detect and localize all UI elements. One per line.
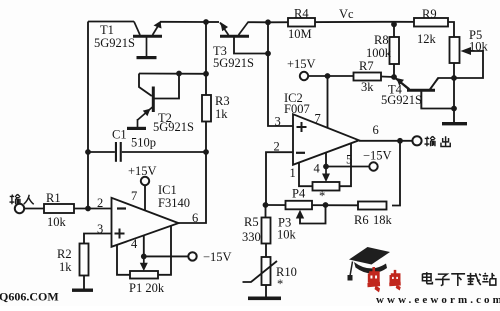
P1 wiper arrow down	[140, 256, 148, 271]
node summing input	[85, 206, 91, 212]
capacitor C1 510p plates	[115, 142, 122, 162]
wire T2 base-collector rail to R3 top	[139, 73, 206, 75]
node output	[397, 138, 403, 144]
watermark graduation cap	[348, 247, 391, 281]
ground for T4 base chain	[442, 122, 467, 125]
svg-text:R6: R6	[354, 213, 369, 227]
wire R5 leads	[265, 205, 267, 218]
resistor R2 1k	[80, 244, 89, 276]
wire +15V terminal to IC2 pin7 node	[308, 75, 328, 77]
wire IC2 pin4 node to -15V terminal	[326, 166, 370, 168]
svg-text:+15V: +15V	[287, 57, 316, 71]
wire T3 collector to node B	[248, 21, 269, 23]
terminal +15V IC1	[141, 177, 149, 185]
ground for T1 base	[137, 56, 157, 59]
svg-text:R7: R7	[359, 59, 374, 73]
svg-text:7: 7	[131, 189, 137, 203]
node E P5/T4 collector	[451, 75, 457, 81]
svg-text:330: 330	[242, 230, 261, 244]
IC2 plus sign pin3	[297, 122, 307, 132]
node IC2 pin4	[323, 164, 329, 170]
node P3 right	[323, 202, 329, 208]
wire IC1 pin1 to P1 left	[117, 245, 130, 275]
IC1 plus sign pin3	[115, 229, 125, 239]
wire T4 collector diagonal to node E	[430, 78, 454, 90]
svg-text:R9: R9	[422, 7, 437, 21]
svg-text:T1: T1	[100, 23, 114, 37]
terminal input	[15, 204, 24, 213]
op-amp U1 IC1 F3140 triangle	[112, 198, 179, 247]
wire P3 wiper return	[300, 205, 326, 224]
svg-text:1k: 1k	[59, 260, 72, 274]
svg-text:10M: 10M	[288, 27, 312, 41]
svg-text:6: 6	[192, 211, 198, 225]
svg-text:R1: R1	[46, 191, 61, 205]
resistor R4 10M	[288, 18, 315, 27]
svg-text:R3: R3	[215, 94, 230, 108]
node IC1 pin4	[141, 254, 147, 260]
wire IC1 pin3 to R2	[84, 234, 112, 244]
wire P5 wiper return	[454, 51, 483, 78]
wire Vc node to R9 to P5 top	[394, 22, 454, 37]
wire IC2 pin1 to P4 left	[299, 162, 313, 186]
P3 wiper arrow up	[296, 210, 304, 219]
svg-text:2: 2	[97, 196, 103, 210]
wire R10 bottom to ground	[265, 285, 267, 297]
svg-text:7: 7	[315, 112, 321, 126]
wire R8 top lead	[393, 22, 395, 37]
transistor Q3 T3 5G921S	[220, 22, 249, 36]
potentiometer P3 10k body	[286, 201, 313, 210]
svg-text:4: 4	[131, 237, 138, 251]
svg-text:5G921S: 5G921S	[153, 120, 194, 134]
svg-text:10k: 10k	[277, 228, 297, 242]
IC1 minus sign pin2	[117, 207, 126, 209]
wire node B down to IC2 pin3	[268, 22, 293, 126]
wire IC1 pin7 +15V	[144, 185, 146, 211]
transistor Q4 T4 5G921S	[395, 78, 439, 109]
wire input to R1 to pin2 node	[24, 208, 112, 210]
wire T4 emitter node D diagonal	[394, 77, 409, 90]
P4 wiper arrow down	[322, 167, 330, 183]
resistor R1 10k	[44, 204, 74, 213]
svg-text:1k: 1k	[215, 107, 228, 121]
node R3 top	[203, 71, 209, 77]
svg-text:Vc: Vc	[339, 7, 354, 21]
node F pin2/R5/P3	[263, 202, 269, 208]
resistor R6 18k	[358, 202, 387, 210]
wire output node down to R6 right	[392, 141, 400, 206]
svg-text:F3140: F3140	[158, 196, 190, 210]
svg-text:R2: R2	[57, 247, 72, 261]
svg-text:Q606.COM: Q606.COM	[0, 290, 59, 304]
capacitor C1 left wire	[88, 151, 115, 153]
capacitor C1 right wire	[122, 151, 206, 153]
svg-text:5G921S: 5G921S	[94, 36, 135, 50]
svg-text:www.eeworm.com: www.eeworm.com	[376, 294, 500, 306]
terminal output	[412, 136, 421, 145]
node C T3 base	[265, 51, 271, 57]
terminal -15V IC2	[369, 162, 377, 170]
node B T3 collector/R4	[265, 19, 271, 25]
wire left frame vertical (summing node)	[87, 22, 89, 209]
wire IC2 pin4 lead	[325, 152, 327, 166]
wire IC1 pin4 lead	[143, 235, 145, 256]
wire node F to P3 to R6	[266, 204, 358, 206]
svg-text:6: 6	[373, 123, 379, 137]
transistor Q2 T2 5G921S	[138, 87, 154, 128]
svg-text:5: 5	[346, 153, 352, 167]
svg-text:5G921S: 5G921S	[381, 93, 422, 107]
potentiometer P5 10k body	[450, 37, 460, 63]
resistor R5 330	[262, 218, 271, 244]
svg-text:3: 3	[97, 222, 103, 236]
svg-text:IC1: IC1	[158, 183, 177, 197]
IC2 minus sign pin2	[296, 152, 305, 154]
svg-text:4: 4	[314, 162, 321, 176]
thermistor R10 body	[262, 257, 271, 285]
ground under R2	[72, 289, 93, 292]
svg-text:*: *	[319, 189, 325, 203]
svg-text:100k: 100k	[366, 46, 392, 60]
label input 输入 drawn strokes	[9, 194, 33, 204]
label output 输出 drawn strokes	[424, 136, 450, 146]
node T4 base	[451, 106, 457, 112]
wire R8 bottom lead to node D	[393, 64, 395, 77]
wire T4 base lead	[421, 91, 454, 109]
node Vc R4/R9/R8	[391, 21, 397, 27]
svg-text:5G921S: 5G921S	[213, 56, 254, 70]
svg-text:10k: 10k	[47, 215, 67, 229]
resistor R9 12k	[414, 18, 448, 27]
svg-text:3k: 3k	[361, 80, 374, 94]
svg-text:12k: 12k	[417, 32, 437, 46]
svg-text:3: 3	[275, 115, 281, 129]
svg-text:R5: R5	[244, 215, 259, 229]
svg-text:2: 2	[274, 140, 280, 154]
watermark 虫虫 red characters drawn strokes	[367, 267, 400, 290]
svg-text:*: *	[277, 277, 283, 291]
wire T1 emitter to node A	[160, 21, 206, 23]
svg-text:P4: P4	[292, 187, 306, 201]
wire P5 bottom to node E to base node to ground	[453, 63, 455, 122]
wire IC2 pin7 vertical	[327, 76, 329, 128]
wire IC2 pin5 to P4 right	[340, 143, 352, 186]
resistor R3 1k	[202, 95, 211, 122]
wire T2 base lead	[139, 74, 152, 97]
wire R2 bottom to ground	[83, 276, 85, 289]
ground for T2 emitter	[127, 127, 146, 130]
wire pin7 node to R7	[328, 75, 354, 77]
wire IC1 pin4 node to -15V terminal	[144, 255, 189, 257]
potentiometer P1 20k body	[130, 271, 158, 279]
wire IC2 pin6 output	[359, 140, 417, 142]
svg-text:510p: 510p	[131, 136, 156, 150]
terminal -15V IC1	[188, 252, 196, 260]
svg-text:−15V: −15V	[363, 149, 392, 163]
node +15V/pin7	[325, 73, 331, 79]
node D R7/R8/T4 emitter	[391, 74, 397, 80]
node C1 right	[203, 149, 209, 155]
svg-text:+15V: +15V	[128, 164, 157, 178]
wire IC2 pin2 to R5-P3 node	[266, 152, 293, 205]
node C1 left	[85, 149, 91, 155]
transistor Q1 T1 5G921S	[133, 21, 162, 56]
svg-text:1: 1	[290, 166, 296, 180]
thermistor R10 diagonal strike	[243, 261, 278, 282]
svg-text:R4: R4	[294, 7, 309, 21]
svg-text:R8: R8	[374, 33, 389, 47]
wire node A to T3 emitter	[206, 21, 219, 23]
resistor R8 100k	[390, 37, 400, 64]
svg-text:P1 20k: P1 20k	[129, 281, 165, 295]
resistor R7 3k	[354, 73, 382, 81]
wire T2 collector lead	[155, 74, 180, 99]
wire node B to R4 to Vc node	[268, 21, 394, 24]
node T2 collector junction	[176, 71, 182, 77]
svg-text:C1: C1	[112, 128, 127, 142]
op-amp U2 IC2 F007 triangle	[293, 114, 359, 165]
watermark 电子下载站 drawn strokes	[422, 272, 495, 286]
P5 wiper arrow	[461, 47, 472, 55]
terminal +15V IC2	[300, 72, 308, 80]
wire T3 base lead to node C	[234, 37, 268, 54]
svg-text:10k: 10k	[469, 40, 489, 54]
svg-text:18k: 18k	[373, 213, 393, 227]
potentiometer P4 body	[313, 182, 340, 191]
wire top-left rail from left frame to T1 collector	[88, 21, 134, 23]
svg-text:−15V: −15V	[203, 250, 232, 264]
ground under R10	[248, 297, 281, 301]
node A T1/T3 emitters	[203, 19, 209, 25]
svg-text:F007: F007	[284, 102, 310, 116]
wire R7 right to emitter node D	[381, 76, 394, 79]
wire IC1 pin5 to P1 right	[158, 226, 171, 275]
wire node A down through R3, C1 node, to IC1 pin6	[179, 22, 207, 223]
